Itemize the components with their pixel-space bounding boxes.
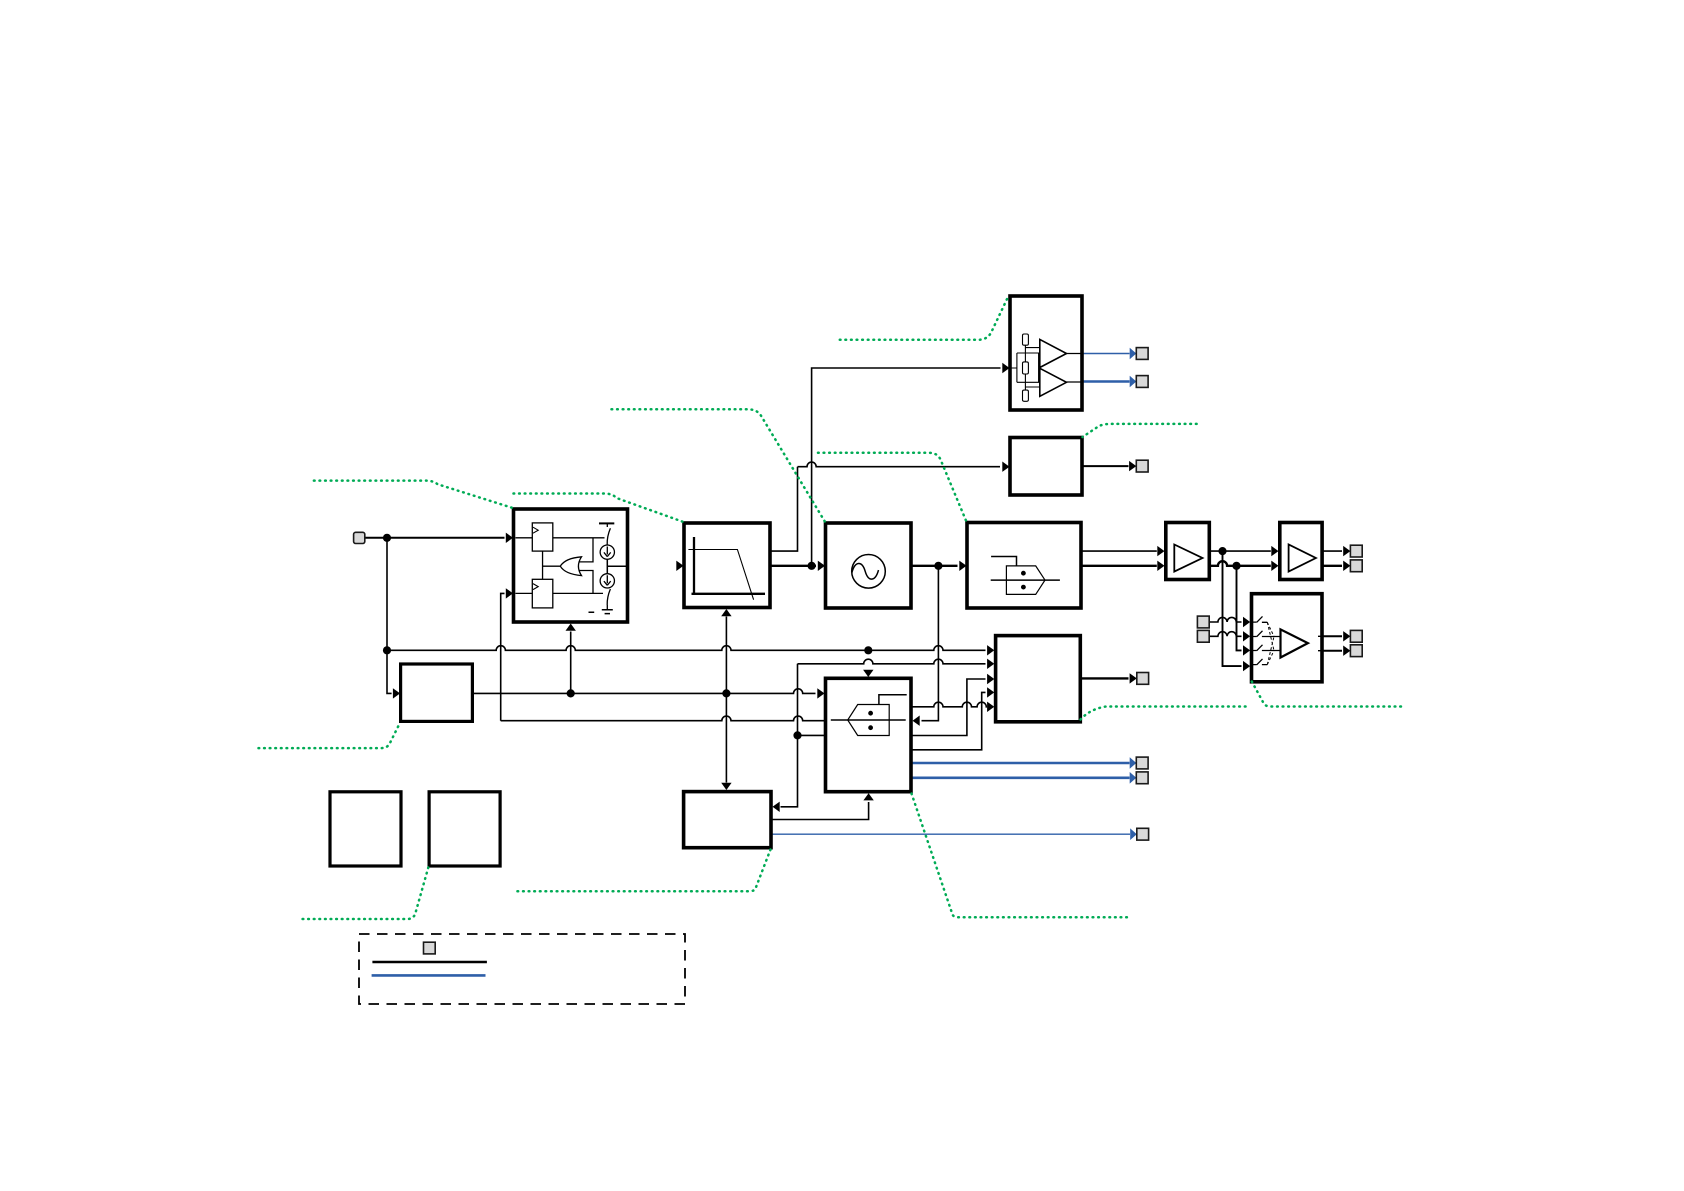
callout oscillator	[612, 409, 825, 521]
PADS-LAYER	[354, 348, 1363, 840]
wire bottom block output up into divider2 bottom	[771, 802, 869, 820]
icon charge pump dff q lines	[553, 538, 605, 594]
ARROWS-LAYER	[393, 363, 1351, 812]
callout big block	[1081, 707, 1249, 720]
callout divider1	[818, 453, 966, 522]
junction reference line at divider2 top	[864, 646, 872, 654]
wire multibuffer gray input1	[1209, 617, 1241, 622]
wire divider1 to buffer1 lower	[1081, 565, 1157, 567]
icon oscillator circle	[852, 555, 886, 589]
pad buffer2 output1	[1350, 545, 1362, 557]
junction input line	[383, 534, 391, 542]
pad divider2 blue output2	[1136, 772, 1148, 784]
callout square2 legend	[303, 868, 429, 920]
wire buffer1 upper junction down to multibuffer input4	[1223, 551, 1242, 666]
arrow into LPF input	[676, 561, 683, 571]
arrows multibuffer output pads	[1343, 631, 1350, 641]
wire divider1 to buffer1 upper	[1081, 550, 1157, 552]
arrows into buffer1	[1157, 546, 1164, 556]
WIRES-LAYER	[365, 368, 1342, 820]
callout charge pump	[314, 481, 513, 508]
wire divider2 out to big block input3	[911, 679, 986, 736]
icon divider1 dots	[1021, 571, 1026, 576]
callout multibuffer	[1252, 682, 1406, 707]
BLOCKS-LAYER	[330, 296, 1322, 866]
wire block2 output to pad	[1082, 465, 1129, 467]
wire buffer1 to buffer2 upper	[1209, 550, 1271, 552]
block loop filter LPF	[684, 523, 770, 608]
callout LPF	[514, 494, 684, 522]
arrow divider2 blue output1	[1130, 757, 1137, 769]
CALLOUTS-LAYER	[259, 298, 1406, 919]
icon charge pump dff1	[532, 523, 553, 551]
arrow into small block	[393, 688, 400, 698]
icon comparator resistor ladder	[1023, 334, 1029, 345]
icon charge pump ground	[589, 610, 613, 614]
icon multibuffer input stubs	[1253, 622, 1257, 665]
icon multibuffer selected paths	[1262, 622, 1274, 664]
pad divider2 blue output1	[1136, 757, 1148, 769]
icon divider2 fraction line	[831, 719, 906, 721]
icon charge pump mid vertical and output tap	[607, 559, 627, 573]
block small block	[401, 664, 473, 721]
callout small block	[259, 722, 401, 748]
callout bottom block	[515, 850, 771, 892]
wire buffer2 output upper to pad	[1322, 550, 1342, 552]
wire divider2 out to big block input4	[911, 692, 986, 749]
arrow block2 output pad	[1129, 461, 1136, 471]
arrow into divider2 left input	[817, 688, 824, 698]
icon charge pump current source2	[600, 574, 614, 588]
arrow divider2 blue output2	[1130, 772, 1137, 784]
icon oscillator sine	[852, 563, 879, 579]
callout block2	[1083, 424, 1197, 437]
junction reference line left	[383, 646, 391, 654]
block multibuffer	[1252, 594, 1323, 682]
icon multibuffer output stubs	[1318, 636, 1322, 650]
icon buffer1 triangle	[1174, 545, 1202, 572]
block square2	[429, 792, 500, 866]
legend pad sample	[424, 942, 436, 954]
block square1	[330, 792, 401, 866]
junction oscillator output	[934, 562, 942, 570]
arrow comparator blue output1	[1130, 348, 1137, 360]
pad buffer2 output2	[1350, 560, 1362, 572]
arrow up into divider2 bottom	[863, 793, 873, 800]
wire LPF bottom to bottom block top	[725, 617, 727, 783]
wire LPF main output to oscillator	[770, 565, 816, 567]
block block2	[1010, 438, 1082, 496]
pad multibuffer output2	[1350, 645, 1362, 657]
icon multibuffer select dashed lines	[1267, 622, 1274, 664]
wire multibuffer output1 to pad	[1322, 635, 1342, 637]
legend dashed border	[359, 934, 685, 1004]
JUNCTION-DOTS	[383, 534, 1241, 740]
LEGEND	[359, 934, 685, 1004]
arrow up into LPF bottom	[721, 609, 731, 616]
wire input to charge pump	[365, 537, 505, 539]
arrow up into charge pump bottom	[566, 624, 576, 631]
icon multibuffer triangle	[1281, 629, 1308, 657]
wire oscillator junction down into divider2 right input	[922, 566, 939, 721]
pad bottom block blue output	[1137, 828, 1149, 840]
arrow down into divider2 top	[863, 670, 873, 677]
wire small block output to divider2 left input	[472, 689, 815, 694]
BLUE-ARROWS	[1130, 348, 1137, 840]
junction buffer1 lower output	[1232, 562, 1240, 570]
icon multibuffer switches	[1257, 616, 1263, 664]
pad big block output	[1137, 673, 1149, 685]
wire comparator blue output2	[1082, 380, 1130, 383]
pad block2 output	[1136, 460, 1148, 472]
arrow bottom block blue output	[1130, 828, 1137, 840]
wire buffer2 output lower to pad	[1322, 565, 1342, 567]
block bottom block	[684, 792, 771, 848]
callout comparator	[840, 298, 1008, 340]
arrow into charge pump input2	[506, 588, 513, 598]
wire vertical from input junction down to small block	[387, 538, 392, 694]
icon charge pump switch2	[607, 589, 610, 610]
block charge pump / phase detector	[514, 509, 628, 622]
block comparator	[1010, 296, 1082, 410]
icon comparator triangle1	[1040, 339, 1067, 367]
wire divider2 left output to charge pump input2	[501, 593, 826, 720]
legend black wire sample	[372, 961, 487, 964]
wire reference line to big block input1	[387, 646, 986, 651]
icon divider2 clock L	[879, 695, 907, 705]
icon divider2 dots	[868, 711, 873, 716]
icon charge pump dff2	[532, 579, 553, 608]
icon charge pump or gate	[560, 557, 581, 576]
arrow big block output pad	[1130, 673, 1137, 683]
ICONS-LAYER	[516, 334, 1323, 736]
legend blue wire sample	[372, 974, 486, 977]
icon charge pump or inputs	[580, 538, 594, 594]
arrow into divider1 input	[959, 561, 966, 571]
block oscillator	[826, 523, 912, 608]
pad multibuffer input1	[1197, 616, 1209, 628]
block divider2	[826, 678, 912, 791]
arrow into comparator input	[1002, 363, 1009, 373]
wire junction up into charge pump bottom	[570, 632, 572, 694]
junction small block output at charge pump	[567, 689, 575, 697]
icon charge pump switch1	[607, 523, 610, 544]
wire comparator blue output1	[1082, 353, 1130, 355]
wire bottom block blue output	[771, 833, 1130, 835]
block buffer2	[1280, 523, 1322, 580]
block buffer1	[1166, 523, 1210, 580]
block divider1	[967, 523, 1081, 609]
icon comparator input box	[1010, 348, 1040, 387]
junction LPF output	[808, 562, 816, 570]
icon charge pump current source1	[600, 545, 614, 559]
wire buffer1 to buffer2 lower	[1209, 561, 1271, 566]
wire buffer1 lower junction down to multibuffer input3	[1237, 566, 1242, 651]
wire divider2 blue output1	[911, 762, 1130, 765]
icon multibuffer node links	[1274, 637, 1281, 651]
wire divider2 left node to big block input2 and bottom block	[781, 659, 986, 807]
wire big block output to pad	[1080, 677, 1128, 679]
junction buffer1 upper output	[1218, 547, 1226, 555]
icon buffer2 triangle	[1289, 545, 1316, 572]
arrows into big block inputs	[987, 645, 994, 655]
icon divider1 clock L	[991, 557, 1016, 566]
wire divider2 blue output2	[911, 776, 1130, 779]
arrow into block2 input	[1002, 462, 1009, 472]
icon charge pump reset vertical	[542, 551, 544, 579]
wire junction up to comparator block	[812, 368, 1001, 566]
block big block	[996, 636, 1081, 722]
icon LPF axes	[692, 537, 766, 594]
icon comparator triangle2	[1040, 368, 1067, 396]
arrow down into bottom block top	[721, 783, 731, 790]
icon divider1 pentagon	[1006, 566, 1045, 595]
icon charge pump or output	[543, 565, 561, 567]
wire LPF upper output to block2	[770, 462, 1000, 551]
arrows into buffer2	[1271, 546, 1278, 556]
arrow into charge pump input1	[506, 533, 513, 543]
wire multibuffer gray input2	[1209, 632, 1241, 637]
icon divider2 pentagon	[848, 705, 890, 736]
icon divider1 fraction line	[991, 579, 1060, 581]
icon comparator outputs	[1067, 354, 1083, 383]
wire multibuffer output2 to pad	[1322, 650, 1342, 652]
arrow into oscillator input	[818, 561, 825, 571]
icon charge pump dff1 clock	[533, 527, 538, 533]
pad multibuffer input2	[1197, 630, 1209, 642]
icon charge pump dff input lines	[516, 538, 533, 594]
wire divider2 out to big block input5	[911, 702, 986, 707]
arrow comparator blue output2	[1130, 376, 1137, 388]
wire oscillator output to divider1	[911, 565, 958, 567]
pad comparator output2	[1136, 376, 1148, 388]
arrows buffer2 output pads	[1343, 546, 1350, 556]
BLUE-WIRES	[771, 354, 1130, 835]
icon charge pump supply rail	[599, 522, 614, 524]
arrows into multibuffer	[1243, 617, 1250, 627]
pad comparator output1	[1136, 348, 1148, 360]
arrow left into divider2 right input	[913, 716, 920, 726]
arrow left into bottom block right input	[773, 802, 780, 812]
icon charge pump dff2 clock	[533, 584, 538, 590]
junction small block output at LPF vertical	[722, 689, 730, 697]
icon LPF response curve	[688, 550, 753, 600]
callout divider2	[912, 794, 1129, 918]
junction divider2 left node	[793, 731, 801, 739]
pad multibuffer output1	[1350, 630, 1362, 642]
pad main input	[354, 532, 365, 543]
